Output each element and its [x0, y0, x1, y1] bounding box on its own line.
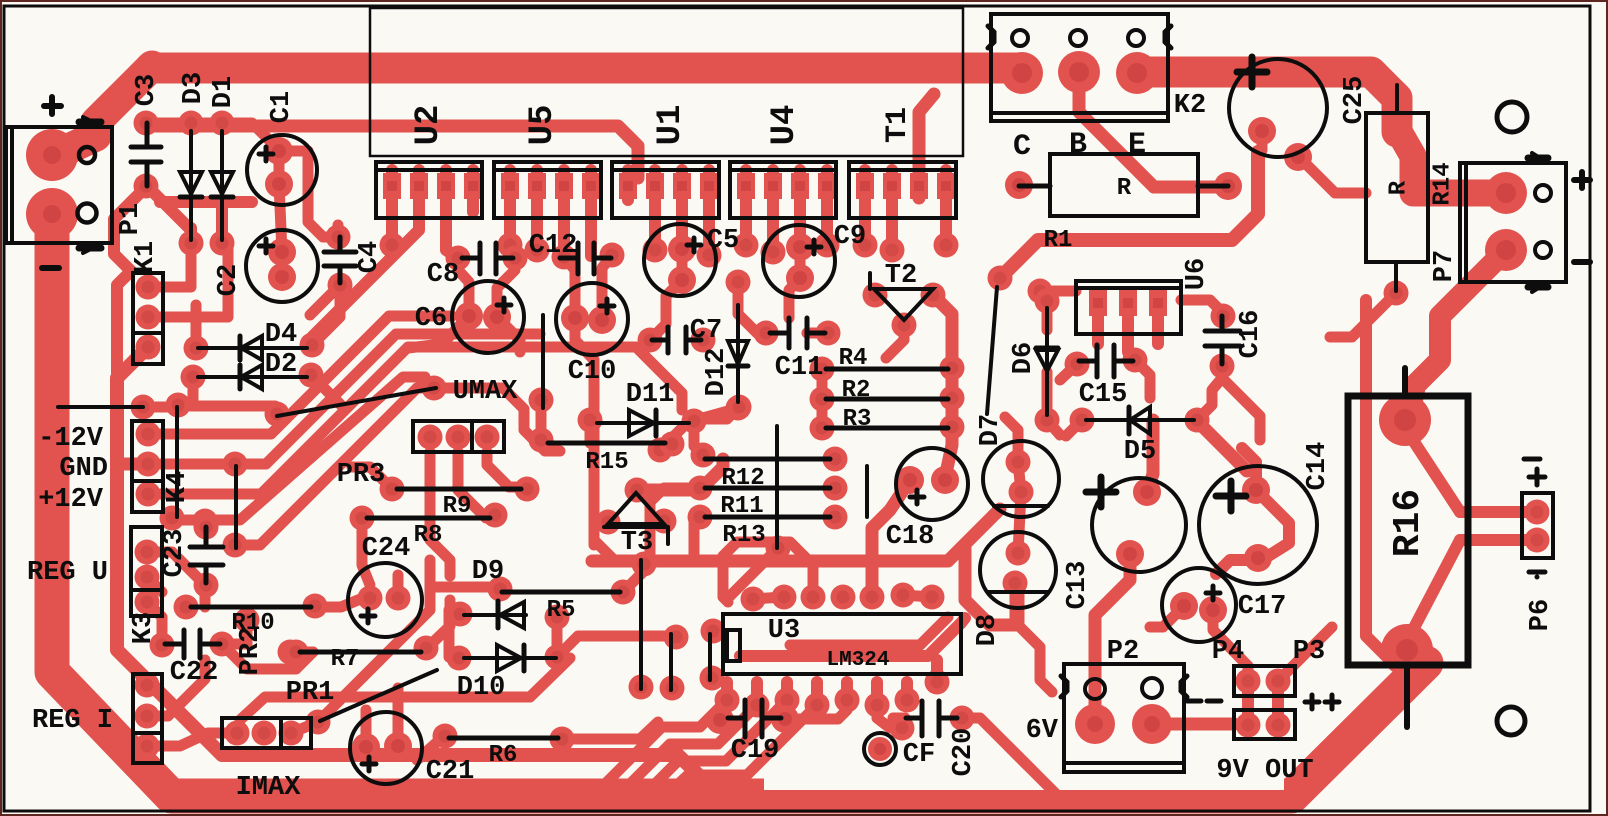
svg-text:K3: K3 — [129, 612, 159, 644]
wire U3 fan nested 3 — [652, 700, 787, 787]
wire R1 trace — [1000, 152, 1258, 278]
wire D8 bottom down — [1010, 583, 1021, 625]
capacitor C16 symbol — [1205, 316, 1240, 364]
wire P6 links — [1460, 512, 1537, 540]
svg-text:C23: C23 — [160, 529, 190, 578]
svg-text:P1: P1 — [116, 203, 146, 235]
svg-text:C15: C15 — [1079, 380, 1128, 410]
svg-text:PR1: PR1 — [286, 678, 335, 708]
wire mid trunk y560 — [592, 509, 1000, 561]
wire PR2 R7 — [296, 600, 450, 652]
svg-text:T3: T3 — [621, 528, 653, 558]
svg-text:C1: C1 — [267, 91, 297, 123]
node IMAX header pads — [225, 721, 250, 746]
svg-text:+12V: +12V — [38, 485, 104, 515]
capacitor C10 outline — [556, 283, 628, 355]
node P7 plus mark — [1574, 172, 1590, 188]
node mounting hole top right — [1497, 102, 1527, 132]
wire PR3 stub 3 — [487, 452, 521, 487]
wire C5 pads — [652, 249, 682, 338]
wire C13 bottom to P2 — [1095, 554, 1130, 724]
node R6 pads — [433, 724, 458, 749]
svg-text:R15: R15 — [585, 449, 628, 476]
wire C12 pads to C10 — [564, 255, 612, 320]
svg-text:R8: R8 — [414, 522, 443, 549]
svg-text:U6: U6 — [1182, 258, 1212, 290]
wire U3 fan nested 1 — [607, 700, 727, 782]
wire IMAX header to PR1 pad — [291, 722, 318, 733]
node P4 P3 pads — [1236, 669, 1261, 694]
resistor R12 line — [705, 457, 830, 462]
svg-text:C22: C22 — [170, 658, 219, 688]
connector P3 outline — [1234, 710, 1295, 739]
svg-text:D7: D7 — [976, 414, 1006, 446]
wire D9 D10 right pads vertical — [552, 617, 563, 657]
node connector stub end pads — [380, 233, 405, 258]
svg-text:D8: D8 — [973, 614, 1003, 646]
wire D5 left net — [1066, 420, 1082, 436]
svg-text:C24: C24 — [362, 534, 411, 564]
capacitor C6 outline — [452, 281, 524, 353]
svg-text:K1: K1 — [131, 241, 161, 273]
connector P4 outline — [1234, 666, 1295, 696]
capacitor C7 symbol — [652, 327, 701, 353]
wire U4 connector stubs — [746, 170, 827, 252]
diode D10 symbol — [464, 645, 556, 671]
capacitor C22 symbol — [165, 630, 220, 658]
svg-text:U1: U1 — [652, 105, 690, 146]
connector P2 pads — [1075, 704, 1115, 744]
node C7 pads — [638, 328, 663, 353]
wire U3 bottom stubs — [727, 660, 937, 705]
wire D5 right to C14 diagonal — [1200, 424, 1247, 471]
diode D12 symbol — [728, 305, 748, 402]
wire PR3 stub 2 — [458, 452, 492, 518]
connector PR3 outline — [413, 421, 504, 452]
node K5 pads — [135, 673, 160, 698]
node P2 pin rings — [1085, 679, 1105, 699]
wire C1 pads link — [279, 151, 282, 277]
resistor R2 line — [826, 397, 948, 402]
wire C16 bottom elbow — [1222, 366, 1260, 440]
wire R13 left vertical — [694, 517, 700, 560]
node P7 minus mark — [1574, 259, 1590, 265]
resistor R11 line — [705, 486, 830, 491]
wire UMAX pad trace — [434, 388, 560, 451]
wire U2 pad2 diagonal to D4 right — [312, 198, 419, 345]
svg-text:C25: C25 — [1340, 76, 1370, 125]
node R12 pads — [691, 443, 716, 468]
node plus plus marks — [1305, 695, 1339, 709]
svg-text:R14: R14 — [1429, 162, 1456, 205]
svg-text:R4: R4 — [839, 345, 868, 372]
wire C21 pad stubs — [366, 688, 398, 747]
wire C20 right pad link — [958, 718, 1032, 770]
node C9 pads — [786, 233, 814, 261]
node C15 pads — [1065, 352, 1090, 377]
wire D5 right net — [1197, 378, 1222, 420]
node C10 pads — [561, 304, 589, 332]
wire U3 inner horizontals — [740, 618, 965, 656]
wire C18 left trace down to U3 — [872, 480, 910, 597]
connector U4 outline — [730, 162, 836, 218]
node R8 pads — [350, 506, 375, 531]
svg-text:R7: R7 — [331, 646, 360, 673]
node P6 minus mark — [1529, 572, 1545, 577]
node R9 pads — [380, 477, 405, 502]
node C20 pads — [890, 716, 915, 741]
wire lower trunk y697 — [240, 658, 570, 720]
svg-text:P7: P7 — [1430, 250, 1460, 282]
wire C9 pads down — [789, 247, 826, 333]
svg-text:IMAX: IMAX — [236, 773, 302, 803]
node C5 pads — [668, 235, 696, 263]
svg-text:C16: C16 — [1236, 310, 1266, 359]
node C11 pads — [754, 321, 779, 346]
svg-text:C14: C14 — [1303, 442, 1333, 491]
connector U2 pads — [383, 173, 401, 199]
capacitor C25 outline — [1229, 57, 1327, 157]
svg-text:D4: D4 — [265, 320, 297, 350]
node D3 pads — [179, 111, 204, 136]
diode D9 symbol — [464, 601, 526, 628]
svg-text:C19: C19 — [731, 736, 780, 766]
svg-text:PR3: PR3 — [337, 460, 386, 490]
node R2 pads — [810, 387, 835, 412]
svg-text:D6: D6 — [1009, 342, 1039, 374]
wire P4 diagonal to C14 — [1278, 627, 1332, 681]
node T3 annotation lines — [639, 560, 643, 689]
svg-text:C3: C3 — [132, 74, 162, 106]
wire C22 to PR2 — [222, 620, 313, 669]
svg-text:GND: GND — [59, 454, 108, 484]
node C23 pads — [194, 515, 219, 540]
wire C6 pads — [408, 316, 520, 352]
wire trunk to D8 — [965, 545, 1018, 625]
node D8 pads — [1006, 541, 1031, 566]
wire inner bottom trace from K1 — [117, 347, 716, 792]
svg-text:D12: D12 — [702, 348, 732, 397]
wire x594 vertical above T3 — [589, 360, 600, 545]
svg-text:C7: C7 — [690, 316, 722, 346]
capacitor C8 symbol — [462, 243, 513, 274]
connector U6 outline — [1076, 281, 1181, 334]
svg-text:R5: R5 — [547, 597, 576, 624]
node T2 pads — [863, 283, 888, 308]
svg-text:C20: C20 — [949, 728, 979, 777]
node R14 pads — [1384, 281, 1409, 306]
node C17 pads — [1170, 592, 1198, 620]
wire C24 right pad up — [393, 575, 404, 598]
svg-text:R2: R2 — [842, 377, 871, 404]
diode D7 outline — [983, 441, 1059, 517]
wire R10 right to C24 — [311, 598, 363, 607]
svg-text:D1: D1 — [209, 76, 239, 108]
diode D2 symbol — [198, 365, 307, 389]
wire D12 bottom pad down — [694, 402, 738, 423]
wire GND bar to K4 pin2 — [117, 458, 148, 471]
capacitor C11 symbol — [770, 318, 825, 348]
wire R8 left to C24 — [362, 518, 370, 585]
diode D5 symbol — [1086, 407, 1194, 434]
svg-text:C13: C13 — [1063, 561, 1093, 610]
wire fan line UMAX — [235, 388, 434, 545]
svg-text:-12V: -12V — [38, 424, 104, 454]
svg-text:P3: P3 — [1293, 637, 1325, 667]
svg-text:R9: R9 — [443, 493, 472, 520]
resistor R8 line — [367, 516, 490, 521]
diode D6 symbol — [1036, 308, 1058, 415]
capacitor C2 outline — [246, 230, 318, 302]
wire trunk upper branch y492 — [637, 459, 723, 490]
svg-text:U2: U2 — [410, 105, 448, 146]
transistor T3 outline — [604, 493, 668, 544]
svg-text:K2: K2 — [1174, 91, 1206, 121]
node R7 pads — [284, 640, 309, 665]
node P1 plus mark — [44, 97, 61, 114]
wire K4 pin2 fan line — [148, 334, 540, 464]
svg-text:K4: K4 — [163, 471, 193, 503]
wire U3 fan nested 4b — [674, 705, 817, 788]
wire R12 left pad — [694, 423, 703, 455]
node resistor network silk vertical — [775, 426, 779, 548]
resistor R16 outline — [1348, 368, 1468, 727]
node C13 pads — [1133, 478, 1161, 506]
node R13 pads — [688, 505, 713, 530]
svg-text:E: E — [1128, 128, 1146, 162]
resistor R4 line — [826, 367, 948, 372]
svg-text:PR2: PR2 — [236, 627, 266, 676]
wire C14 internal — [1216, 490, 1289, 574]
wire U3 pad 813 elbow — [723, 542, 813, 602]
wire top ground band — [150, 68, 1397, 132]
node R(R1) pads — [1005, 171, 1033, 199]
node K4 pads — [136, 422, 161, 447]
node T3 pads — [625, 478, 650, 503]
connector P7 pads — [1485, 172, 1527, 214]
wire T2 right to resistor column — [933, 295, 952, 478]
connector U4 pads — [737, 173, 755, 199]
node K2 pads — [1001, 52, 1043, 94]
resistor R3 line — [826, 426, 948, 431]
wire U5 connector stubs — [510, 170, 591, 256]
node C8 pads — [446, 246, 471, 271]
connector U1 outline — [612, 162, 719, 218]
connector PR1 header outline — [222, 718, 311, 748]
node D12 pads — [726, 270, 751, 295]
node short silk vertical — [865, 466, 869, 517]
wire D11 right diagonals — [660, 409, 735, 450]
svg-text:T1: T1 — [881, 107, 915, 143]
connector K2 outline — [988, 14, 1171, 121]
node C1 pads — [265, 137, 293, 165]
diode D3 symbol — [180, 131, 202, 240]
wire D7 bottom to D8 top — [1018, 492, 1021, 553]
node K3 pads — [135, 540, 160, 565]
wire K2 B stub diagonal — [1079, 85, 1154, 187]
wire D2 left vertical to y407 — [188, 377, 199, 404]
wire C13 plus stub — [1147, 420, 1153, 492]
capacitor C17 outline — [1162, 568, 1236, 642]
wire fan line y521 — [172, 377, 425, 520]
wire P2 right to P4 — [1152, 718, 1234, 731]
node T3 lower pads — [632, 552, 657, 577]
node PR2 pads — [235, 608, 260, 633]
wire C3 bottom to left trunk — [114, 186, 147, 380]
svg-text:R: R — [1117, 175, 1132, 202]
svg-text:R16: R16 — [1387, 489, 1430, 557]
wire R9 left diagonal — [352, 467, 392, 489]
node R5 pads — [611, 580, 636, 605]
node P1 minus mark — [42, 265, 59, 271]
svg-text:R11: R11 — [720, 493, 763, 520]
capacitor C18 outline — [896, 448, 968, 520]
connector K5 outline — [133, 674, 162, 763]
wire R5 right pad link — [623, 564, 644, 592]
node P6 pads — [1525, 500, 1550, 525]
connector P7 outline — [1460, 153, 1566, 292]
capacitor C12 symbol — [560, 243, 611, 274]
resistor R10 line — [191, 605, 311, 610]
capacitor C9 outline — [763, 225, 835, 297]
resistor R15 line — [548, 441, 665, 446]
svg-text:C4: C4 — [355, 241, 385, 273]
wire C4 bottom to C2 — [310, 225, 340, 315]
wire C21 right to R6 — [417, 736, 445, 760]
resistor R7 line — [300, 650, 421, 655]
svg-text:T2: T2 — [885, 261, 917, 291]
wire U6 left net — [1040, 291, 1076, 301]
resistor R13 line — [705, 515, 830, 520]
wire U3 inner horizontal 2 — [790, 617, 948, 645]
node K2 pin rings — [1012, 30, 1028, 46]
wire C17 left stub — [1150, 606, 1184, 627]
node R1 net pads — [988, 266, 1013, 291]
node D4 pads — [184, 336, 209, 361]
wire U6 right trace — [1181, 300, 1222, 312]
node C22 pads — [150, 633, 175, 658]
wire band through R14 to P7 plus pad — [1397, 128, 1498, 193]
node UMAX pads — [131, 395, 156, 420]
svg-text:C17: C17 — [1238, 592, 1287, 622]
transistor T2 outline — [870, 273, 933, 320]
svg-text:C6: C6 — [415, 304, 447, 334]
svg-text:D9: D9 — [472, 557, 504, 587]
connector P2 outline — [1061, 664, 1187, 772]
node C4 pads — [326, 225, 351, 250]
capacitor C14 outline — [1199, 466, 1317, 584]
node P6 plus mark — [1524, 459, 1545, 485]
svg-text:D11: D11 — [626, 380, 675, 410]
svg-text:CF: CF — [903, 740, 935, 770]
resistor R6 line — [449, 736, 558, 741]
wire C10 bottom to trunk — [575, 318, 615, 561]
svg-text:C10: C10 — [568, 357, 617, 387]
node mid annotation line 3 — [708, 634, 712, 680]
node U3 bottom row pads — [715, 688, 740, 713]
svg-text:D5: D5 — [1124, 437, 1156, 467]
node mounting hole bottom right — [1497, 707, 1525, 735]
svg-text:R6: R6 — [489, 742, 518, 769]
connector K4 outline — [132, 421, 163, 512]
diode D4 symbol — [198, 336, 307, 360]
wire R right lead trace — [1154, 181, 1228, 194]
node C19 pads — [706, 706, 734, 734]
wire K5 pin3 to IMAX — [147, 733, 237, 746]
svg-text:C18: C18 — [886, 522, 935, 552]
wire P4 pads column — [1248, 681, 1278, 725]
node R15 pads — [529, 388, 554, 413]
wire band notch (thinner bottom band section) — [764, 770, 1284, 790]
connector K1 outline — [133, 273, 163, 364]
node D1 pads — [210, 111, 235, 136]
wire PR3 stub 1 — [430, 452, 450, 576]
connector U5 outline — [494, 162, 601, 218]
node CF pad — [868, 737, 892, 761]
node CF ring — [864, 733, 896, 765]
svg-text:C21: C21 — [426, 757, 475, 787]
svg-text:UMAX: UMAX — [453, 377, 519, 407]
wire D7 annotation line — [987, 287, 997, 414]
connector P1 pads — [26, 129, 78, 181]
connector U1 pads — [619, 173, 637, 199]
node C24 pads — [358, 586, 383, 611]
capacitor C1 outline — [247, 135, 317, 205]
node D7 pads — [1006, 450, 1031, 475]
diode D8 outline — [980, 532, 1056, 608]
wire pad778 diagonal — [730, 548, 778, 596]
svg-text:U3: U3 — [768, 616, 800, 646]
svg-text:D2: D2 — [265, 350, 297, 380]
wire R15 left pads column — [541, 400, 548, 444]
node R16 pads — [1379, 394, 1431, 446]
wire T1 pad3 up to band — [919, 94, 934, 198]
wire R11 left elbow — [650, 488, 700, 558]
svg-text:P2: P2 — [1107, 637, 1139, 667]
connector T1 outline — [849, 162, 956, 218]
node K1 pads — [136, 275, 161, 300]
svg-text:R3: R3 — [843, 406, 872, 433]
wire K5 pin2 right — [147, 660, 205, 716]
diode D11 symbol — [597, 410, 689, 436]
node fan pads — [223, 452, 248, 477]
svg-text:R12: R12 — [721, 465, 764, 492]
wire C20 diagonal into band — [1008, 746, 1062, 800]
node C12 pads — [552, 245, 577, 270]
connector K3 outline — [131, 527, 162, 616]
wire P7 minus thick down — [1412, 250, 1506, 400]
node C25 pads — [1248, 117, 1276, 145]
wire R6 right trace — [562, 722, 658, 739]
wire C25 bottom trace — [1262, 132, 1366, 193]
svg-text:C9: C9 — [834, 222, 866, 252]
capacitor C24 outline — [348, 563, 422, 637]
wire UMAX annotation line — [277, 388, 436, 416]
connector T1 pads — [856, 173, 874, 199]
wire K1 pin2 via x228 to D1 bottom — [148, 246, 228, 317]
resistor R5 line — [502, 590, 620, 595]
wire C3 bottom to D3 pad — [147, 186, 191, 243]
node C2 pads — [268, 238, 296, 266]
wire R16 left inner vertical — [1366, 300, 1390, 660]
node C18 pads — [896, 466, 924, 494]
node D2 pads — [181, 365, 206, 390]
wire R14 pad diag — [1330, 293, 1396, 337]
capacitor C15 symbol — [1079, 345, 1133, 377]
svg-text:C8: C8 — [427, 260, 459, 290]
wire U2 connector stubs — [392, 170, 473, 258]
capacitor C13 outline — [1086, 477, 1186, 572]
